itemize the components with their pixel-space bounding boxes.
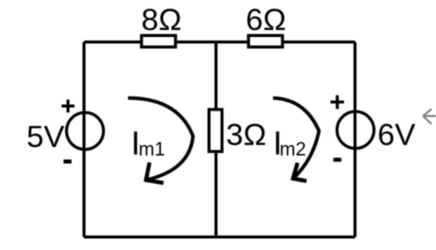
svg-text:3Ω: 3Ω xyxy=(226,117,266,152)
resistor R1 8ohm xyxy=(141,2,181,47)
wire bottom xyxy=(84,236,355,239)
svg-text:6Ω: 6Ω xyxy=(246,2,286,37)
resistor R2 6ohm xyxy=(246,2,286,47)
mesh current arrow Im1 xyxy=(128,98,193,183)
gray cursor arrow xyxy=(423,109,436,124)
svg-text:6V: 6V xyxy=(378,117,416,152)
wire right xyxy=(354,42,357,237)
svg-text:8Ω: 8Ω xyxy=(141,2,181,37)
svg-text:5V: 5V xyxy=(27,119,65,154)
svg-text:Im2: Im2 xyxy=(273,125,306,162)
wire middle branch xyxy=(215,42,218,237)
voltage source V1 5V xyxy=(27,100,104,162)
mesh current arrow Im2 xyxy=(273,98,319,181)
resistor R3 3ohm xyxy=(209,110,266,153)
wire top xyxy=(84,41,355,44)
voltage source V2 6V xyxy=(331,95,416,159)
svg-text:Im1: Im1 xyxy=(131,125,165,162)
wire left xyxy=(83,42,86,237)
